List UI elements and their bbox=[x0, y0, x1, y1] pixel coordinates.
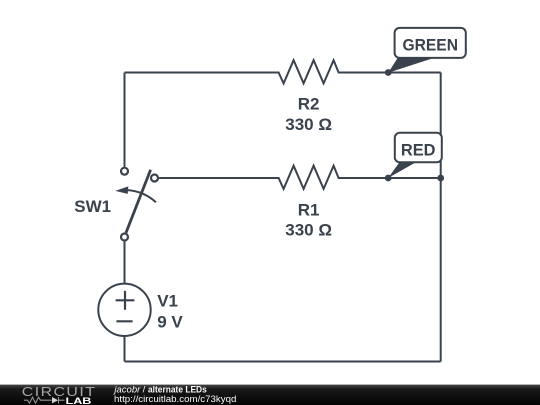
wire right rail bbox=[440, 73, 442, 362]
svg-text:9 V: 9 V bbox=[157, 313, 183, 332]
switch SW1 arc arrow bbox=[128, 190, 156, 202]
GREEN callout box bbox=[395, 28, 466, 58]
svg-text:LAB: LAB bbox=[66, 396, 92, 405]
wire switch to V1 bbox=[124, 242, 126, 284]
switch SW1 common contact bbox=[121, 234, 128, 241]
svg-text:V1: V1 bbox=[157, 292, 178, 311]
V1 plus sign bbox=[116, 291, 135, 310]
svg-text:R1: R1 bbox=[298, 201, 320, 220]
RED callout box bbox=[395, 133, 442, 163]
svg-text:330 Ω: 330 Ω bbox=[285, 115, 332, 134]
switch arrowhead bbox=[115, 186, 128, 194]
switch SW1 throw contact left bbox=[121, 168, 128, 175]
wire top rail with resistor R2 bbox=[125, 60, 441, 83]
GREEN callout tail bbox=[388, 58, 434, 73]
switch SW1 throw contact right bbox=[151, 175, 158, 182]
svg-text:R2: R2 bbox=[298, 95, 320, 114]
svg-text:GREEN: GREEN bbox=[403, 36, 459, 55]
footer logo diode bbox=[52, 397, 58, 403]
node dot row2/right rail junction bbox=[437, 175, 444, 182]
node dot top (GREEN anchor) bbox=[385, 69, 392, 76]
svg-text:http://circuitlab.com/c73kyqd: http://circuitlab.com/c73kyqd bbox=[114, 394, 236, 405]
wire row2 with resistor R1 bbox=[159, 166, 441, 189]
svg-text:RED: RED bbox=[401, 140, 436, 159]
RED callout tail bbox=[388, 162, 416, 178]
wire left drop to switch bbox=[124, 73, 126, 167]
switch SW1 lever bbox=[126, 170, 151, 233]
footer logo schematic wire bbox=[24, 397, 65, 403]
footer bar bbox=[0, 385, 540, 405]
svg-text:SW1: SW1 bbox=[74, 197, 111, 216]
wire bottom rail bbox=[125, 361, 441, 363]
svg-text:330 Ω: 330 Ω bbox=[285, 220, 332, 239]
voltage source V1 circle bbox=[98, 284, 150, 336]
V1 minus sign bbox=[116, 320, 132, 322]
wire V1 to bottom rail bbox=[124, 337, 126, 362]
node dot row2 (RED anchor) bbox=[385, 175, 392, 182]
